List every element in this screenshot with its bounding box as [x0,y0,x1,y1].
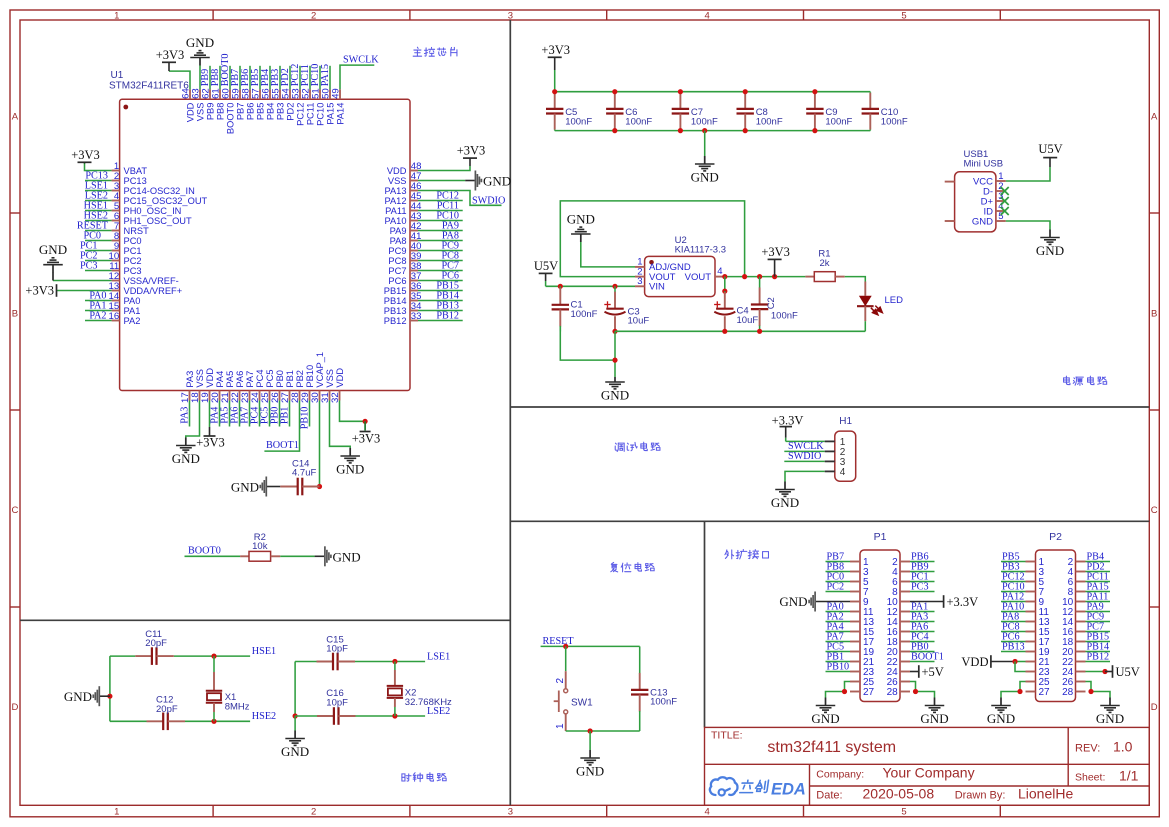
U1 pin 26 PB0 [270,370,285,403]
wire HSE1 (top) [110,655,250,657]
net label PC1 (P1 pin 6) [910,572,935,583]
net label PB9 (U1 pin 62) [200,66,211,90]
U1 pin 56 PB4 [261,88,276,120]
wire VOUT GND rail (bottom) [615,330,865,332]
U1 pin 52 PC11 [301,88,316,125]
svg-text:Date:: Date: [816,790,842,802]
U1 pin 10 PC2 [109,251,142,266]
net label PC9 (P2 pin 14) [1086,612,1111,623]
mcu U1 STM32F411RET6 [120,99,410,390]
wire LED to GND rail [864,321,866,331]
wire P2 pins 26/28 to GND [1086,682,1111,698]
net label BOOT1 (P1 pin 22) [910,652,944,663]
ground GND (regulator) [601,377,629,403]
svg-text:PC15_OSC32_OUT: PC15_OSC32_OUT [124,196,208,206]
net label BOOT0 (U1 pin 60) [220,53,231,89]
junction VOUT/C4 [722,274,727,279]
wire H1 pin4 to GND [785,471,825,481]
junction P1 pin 27 [842,689,847,694]
svg-text:Mini USB: Mini USB [964,159,1004,170]
capacitor C16 10pF [317,688,356,725]
svg-text:PC13: PC13 [124,176,147,186]
svg-text:GND: GND [333,549,361,564]
P1 pin 25 [850,677,875,688]
P2 pin 23 [1026,667,1051,678]
P2 pin 4 [1068,567,1086,578]
wire RESET top [566,645,640,647]
ground GND flag (C14) [231,477,280,497]
net label PB4 (U1 pin 56) [260,66,271,90]
P2 pin 20 [1062,647,1085,658]
svg-text:PA3: PA3 [185,371,195,388]
svg-text:D: D [11,702,18,713]
no-connect cross [1001,207,1009,215]
svg-text:PC11: PC11 [305,103,315,126]
svg-text:U5V: U5V [1116,665,1140,679]
net label PB15 (U1 pin 36) [418,281,463,292]
net label PC6 (P2 pin 17) [1001,632,1026,643]
P1 pin 2 [892,557,910,568]
svg-text:60: 60 [221,88,232,99]
svg-text:SWDIO: SWDIO [472,195,505,206]
net label PA5 (U1 pin 21) [220,401,231,427]
junction bottom rail [678,128,683,133]
U1 pin 58 PB6 [241,88,256,120]
P2 pin 24 [1062,667,1085,678]
svg-text:GND: GND [691,170,719,185]
net label PB12 (U1 pin 33) [418,311,463,322]
svg-text:8MHz: 8MHz [225,702,250,713]
P1 pin 18 [887,637,910,648]
svg-text:+3V3: +3V3 [156,48,185,62]
net label PA1 (P1 pin 12) [910,602,935,613]
svg-text:PC2: PC2 [827,582,845,593]
crystal X1 8MHz [206,656,250,721]
header H1 [825,416,856,481]
svg-text:PB10: PB10 [300,407,311,430]
svg-text:+3.3V: +3.3V [772,413,804,427]
U1 pin 13 VDDA/VREF+ [109,281,183,296]
net label PA11 (P2 pin 10) [1086,592,1111,603]
svg-text:PB14: PB14 [384,296,407,306]
svg-text:PC1: PC1 [124,246,142,256]
led LED [857,282,903,322]
junction C4/GND rail [722,329,727,334]
svg-text:GND: GND [64,689,92,704]
svg-text:VDD: VDD [185,102,195,122]
svg-text:PB4: PB4 [260,69,271,87]
P1 pin 12 [887,607,910,618]
svg-text:PC3: PC3 [124,266,142,276]
net label PC11 (U1 pin 44) [418,201,463,212]
sheet [1075,768,1139,784]
U1 pin 62 PB9 [201,88,216,120]
svg-text:100nF: 100nF [571,309,598,320]
svg-text:PB10: PB10 [827,662,850,673]
svg-text:PB3: PB3 [270,69,281,87]
junction top rail [612,89,617,94]
net label PB0 (U1 pin 26) [270,401,281,427]
capacitor C1 100nF [552,286,598,331]
U1 pin 16 PA2 [109,311,141,326]
U1 pin 2 PC13 [112,171,147,186]
net label PC5 (P1 pin 19) [826,642,851,653]
junction C2/GND rail [757,329,762,334]
U1 pin 9 PC1 [112,241,142,256]
U1 pin 30 VCAP_1 [310,352,325,403]
net label PB6 (P1 pin 2) [910,552,935,563]
svg-text:GND: GND [281,744,309,759]
date / drawn by [816,786,1073,802]
net label PB1 (P1 pin 21) [826,652,851,663]
svg-text:28: 28 [1062,687,1074,698]
P1 pin 28 [887,687,910,698]
wire P1 pins 26/28 to GND [910,682,935,698]
U2 pin 3 VIN [635,276,665,292]
U1 pin 48 VDD [387,161,422,176]
P2 pin 22 [1062,657,1085,668]
svg-text:100nF: 100nF [691,116,718,127]
wire HSE2 (bottom) [110,720,250,722]
U1 pin 34 PB13 [384,301,422,316]
svg-text:GND: GND [601,388,629,403]
svg-text:GND: GND [567,212,595,227]
U1 pin 3 PC14-OSC32_IN [112,181,195,196]
power +3V3 (U1 pin 32) [340,401,381,446]
P1 pin 15 [850,627,875,638]
net label PB10 (P1 pin 23) [826,662,851,673]
P2 pin 12 [1062,607,1085,618]
P1 pin 5 [850,577,869,588]
net label PC12 (U1 pin 53) [290,64,301,90]
svg-text:10k: 10k [252,541,268,552]
net label PC12 (P2 pin 5) [1001,572,1026,583]
svg-text:1.0: 1.0 [1113,739,1133,755]
section title 复位电路 [611,562,654,571]
power U5V (USB1 VCC) [1006,142,1063,181]
P2 pin 19 [1026,647,1051,658]
P1 pin 6 [892,577,910,588]
power +3V3 (U1 pin 13) [25,284,111,298]
wire LSE left vertical [294,662,296,717]
svg-text:VSS: VSS [325,369,335,388]
wire +3.3V to H1 pin1 [786,440,825,442]
U1 pin 36 PB15 [384,281,422,296]
svg-text:PA9: PA9 [442,221,459,232]
section title 外扩接口 [725,549,769,558]
svg-text:VCAP_1: VCAP_1 [315,352,325,388]
net label PA0 (U1 pin 14) [85,291,112,302]
U1 pin 44 PA11 [385,201,422,216]
ground GND flag (P1 pin 9) [779,592,850,612]
capacitor C11 20pF [135,629,174,665]
U1 pin 23 PA7 [240,371,255,403]
net label PA7 (P1 pin 17) [826,632,851,643]
svg-text:LED: LED [885,295,904,306]
svg-text:100nF: 100nF [771,311,798,322]
wire LSE2 (bottom) [295,715,425,717]
resistor R2 10k [240,532,280,561]
U1 pin 19 VDD [200,368,215,403]
svg-text:PB3: PB3 [275,103,285,121]
power +3.3V (H1) [772,413,804,441]
junction LSE2/X2 [392,713,397,718]
svg-text:Drawn By:: Drawn By: [955,790,1006,802]
capacitor C3 10uF (polarized) [604,286,649,331]
net label PB13 (P2 pin 19) [1001,642,1026,653]
net label PA7 (U1 pin 23) [240,401,251,427]
svg-text:A: A [1151,112,1158,123]
net label PC7 (P2 pin 16) [1086,622,1111,633]
P1 pin 21 [850,657,875,668]
svg-text:PA5: PA5 [225,371,235,388]
section title 电源电路 [1064,376,1107,385]
net label PB13 (U1 pin 34) [418,301,463,312]
capacitor C6 100nF [606,92,652,131]
ground GND (P2 right) [1096,698,1124,727]
svg-text:PB8: PB8 [215,103,225,121]
svg-text:B: B [12,308,18,319]
svg-text:GND: GND [1096,711,1124,726]
svg-text:49: 49 [331,88,342,99]
ground GND flag (HSE) [64,686,110,706]
U1 pin 46 PA13 [384,181,421,196]
net label PC9 (U1 pin 40) [418,241,463,252]
svg-text:NRST: NRST [124,226,150,236]
svg-text:KIA1117-3.3: KIA1117-3.3 [675,245,726,256]
wire GND rail (bottom) [555,130,871,132]
svg-text:HSE2: HSE2 [252,711,276,722]
net label PB1 (U1 pin 27) [280,401,291,427]
ground GND (U1 pin 63) [186,35,214,89]
P1 pin 4 [892,567,910,578]
P2 pin 18 [1062,637,1085,648]
power U5V (VIN) [534,259,558,286]
rev [1075,739,1133,755]
H1 pin 2 [825,447,846,458]
svg-text:53: 53 [291,88,302,99]
svg-text:PC12: PC12 [436,191,459,202]
svg-text:PC6: PC6 [441,271,459,282]
svg-text:PB12: PB12 [436,311,459,322]
U1 pin 53 PC12 [291,88,306,126]
svg-text:PB15: PB15 [436,281,459,292]
USB1 pin 4 ID [984,201,1006,218]
U1 pin 31 VSS [320,369,335,403]
svg-text:BOOT1: BOOT1 [911,652,944,663]
net label PA0 (P1 pin 11) [826,602,851,613]
ground GND (P1 right) [920,698,948,727]
svg-text:52: 52 [301,88,312,99]
net label PA6 (P1 pin 16) [910,622,935,633]
svg-text:PC3: PC3 [911,582,929,593]
net label BOOT0 [185,546,241,557]
U1 pin 37 PC6 [388,271,421,286]
net label PD2 (P2 pin 4) [1086,562,1111,573]
ground GND (LSE) [281,716,309,759]
svg-text:100nF: 100nF [625,116,652,127]
net label PC3 (P1 pin 8) [910,582,935,593]
wire to SW1 [565,646,567,671]
svg-text:GND: GND [231,480,259,495]
P2 pin 7 [1026,587,1045,598]
net label PA10 (P2 pin 11) [1001,602,1026,613]
connector USB1 Mini USB [945,149,1006,232]
net label PB14 (U1 pin 35) [418,291,463,302]
P2 pin 25 [1026,677,1051,688]
svg-text:3: 3 [508,807,513,818]
wire GND stem [614,331,616,377]
net label SWCLK (H1 pin 2) [784,441,824,452]
capacitor C9 100nF [806,92,852,131]
svg-text:2k: 2k [819,258,829,269]
net label PA6 (U1 pin 22) [230,401,241,427]
net label PA2 (P1 pin 13) [826,612,851,623]
svg-text:PC10: PC10 [310,64,321,87]
svg-text:51: 51 [311,88,322,99]
net label PB4 (P2 pin 2) [1086,552,1111,563]
svg-text:2: 2 [555,678,566,684]
net label PA3 (P1 pin 14) [910,612,935,623]
wire SW1 bottom [566,730,640,732]
U1 pin 29 PB10 [300,365,315,403]
svg-text:TITLE:: TITLE: [711,730,743,742]
USB1 shield stub (left bottom) [945,220,955,222]
wire VDD to P2 pin 23 [1015,662,1026,672]
junction VCAP_1/C14 [317,484,322,489]
U1 pin 28 PB2 [290,370,305,403]
U1 pin 11 PC3 [109,261,141,276]
net label PB7 (P1 pin 1) [826,552,851,563]
svg-text:2: 2 [311,10,316,21]
U1 pin 8 PC0 [112,231,142,246]
svg-text:D: D [1151,702,1158,713]
net label PC2 (P1 pin 7) [826,582,851,593]
U1 pin 21 PA5 [220,371,235,403]
svg-text:28: 28 [887,687,899,698]
U1 pin 18 VSS [190,369,205,403]
svg-text:VSS: VSS [195,103,205,122]
net label PA15 (P2 pin 8) [1086,582,1111,593]
svg-text:PB8: PB8 [210,69,221,87]
svg-text:20pF: 20pF [145,638,167,649]
net label PA8 (U1 pin 41) [418,231,463,242]
U1 pin 5 PH0_OSC_IN [112,201,182,216]
svg-text:PC12: PC12 [290,64,301,87]
svg-text:A: A [12,112,19,123]
U1 pin 42 PA9 [390,221,422,236]
svg-text:PH0_OSC_IN: PH0_OSC_IN [124,206,182,216]
svg-text:PA4: PA4 [215,371,225,388]
wire P2 pins 25/27 to GND [1001,682,1026,698]
power +5V (P1 pin 24) [910,665,944,679]
U1 pin 57 PB5 [251,88,266,120]
net label PC8 (P2 pin 15) [1001,622,1026,633]
svg-text:59: 59 [231,88,242,99]
svg-text:PC9: PC9 [441,241,459,252]
net label PB12 (P2 pin 22) [1086,652,1111,663]
ground GND (cap bank) [691,131,719,185]
connector P1 [860,531,900,702]
net label PD2 (U1 pin 54) [280,66,291,90]
svg-text:PB1: PB1 [285,370,295,388]
svg-text:PB6: PB6 [240,69,251,87]
svg-text:PA1: PA1 [124,306,141,316]
P2 pin 13 [1026,617,1051,628]
svg-text:BOOT1: BOOT1 [266,440,299,451]
svg-text:SW1: SW1 [571,697,593,708]
svg-text:100nF: 100nF [565,116,592,127]
svg-text:SWDIO: SWDIO [788,451,821,462]
P2 pin 17 [1026,637,1051,648]
capacitor C4 10uF (polarized) [714,277,758,332]
svg-text:PC5: PC5 [265,370,275,388]
P1 pin 20 [887,647,910,658]
svg-text:HSE1: HSE1 [252,646,276,657]
net label PC10 (U1 pin 51) [310,64,321,90]
svg-text:GND: GND [771,495,799,510]
junction HSE1/X1 [211,654,216,659]
U1 pin 45 PA12 [384,191,421,206]
svg-text:GND: GND [920,711,948,726]
U1 pin 49 PA14 [331,88,346,124]
svg-text:GND: GND [186,35,214,50]
junction C1/C3 GND [612,358,617,363]
U1 pin 4 PC15_OSC32_OUT [112,191,208,206]
svg-text:EDA: EDA [771,781,806,799]
svg-text:PB1: PB1 [280,407,291,425]
U2 pin 4 VOUT [685,266,725,283]
power +3V3 (U1 pin 19) [196,401,225,450]
svg-text:4.7uF: 4.7uF [292,467,316,478]
svg-text:100nF: 100nF [756,116,783,127]
net label HSE1 (U1 pin 5) [84,201,112,212]
wire C1 to GND [560,326,615,360]
svg-text:+3V3: +3V3 [196,436,225,450]
svg-text:PA12: PA12 [384,196,406,206]
P1 pin 14 [887,617,910,628]
svg-text:+5V: +5V [922,665,944,679]
svg-text:PC0: PC0 [124,236,142,246]
svg-text:PA0: PA0 [124,296,141,306]
net label BOOT1 (U1 pin 28) [264,401,299,452]
junction P1 pin 28 [913,689,918,694]
svg-text:PC11: PC11 [300,64,311,86]
power +3V3 (U1 pin 1) [71,148,111,171]
svg-text:56: 56 [261,88,272,99]
net label PA4 (U1 pin 20) [210,401,221,427]
net label RESET (U1 pin 7) [77,221,112,232]
net label PC1 (U1 pin 9) [80,241,112,252]
P2 pin 8 [1068,587,1086,598]
svg-text:PC7: PC7 [441,261,459,272]
junction VDD (P2) [1012,659,1017,664]
svg-text:VDD: VDD [335,368,345,388]
svg-text:BOOT0: BOOT0 [225,103,235,135]
USB1 pin 2 D- [983,181,1006,198]
svg-text:PA10: PA10 [384,216,406,226]
net label SWDIO (H1 pin 3) [784,451,824,462]
net label PC0 (U1 pin 8) [83,231,111,242]
P2 pin 27 [1026,687,1051,698]
ground GND (P1 left) [811,698,839,727]
wire LSE1 (top) [295,661,425,663]
svg-text:GND: GND [779,594,807,609]
net label PA15 (U1 pin 50) [320,64,331,89]
power +3V3 (VOUT) [761,245,790,277]
U1 pin 55 PB3 [271,88,286,120]
capacitor C7 100nF [672,92,718,131]
